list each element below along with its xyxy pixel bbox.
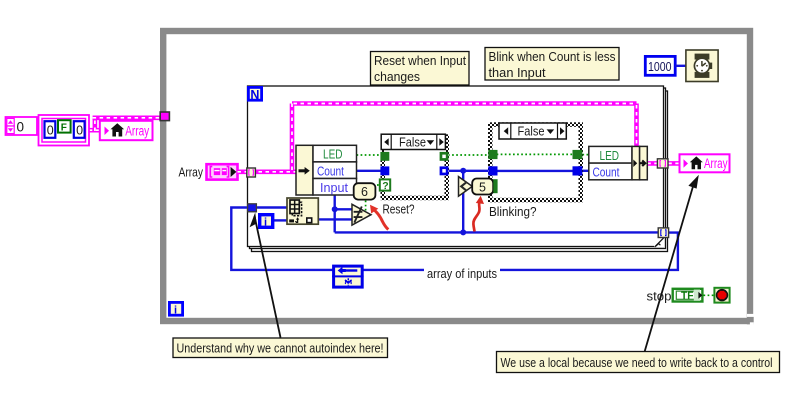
svg-text:5: 5 <box>479 180 486 194</box>
stop TF terminal <box>673 289 703 302</box>
numeric 0 (right) <box>74 121 85 138</box>
svg-text:0: 0 <box>17 120 25 135</box>
svg-text:Array: Array <box>704 156 728 171</box>
svg-text:array of inputs: array of inputs <box>427 267 497 281</box>
wire: LED boolean across cases (green dotted) <box>357 154 590 156</box>
wire: blue feedback loop around bottom <box>231 208 678 270</box>
comment: Blink when Count is less than Input <box>485 48 619 81</box>
svg-text:0: 0 <box>47 124 54 138</box>
callout line to blue tunnel <box>250 212 281 337</box>
case 1 tunnel: Count out (blue, default) <box>440 166 449 175</box>
svg-text:We use a local because we need: We use a local because we need to write … <box>501 355 773 370</box>
for tunnel: array of inputs out (blue []) <box>658 228 668 238</box>
case 2 ? sliver <box>493 181 496 192</box>
comment: Understand why we cannot autoindex here! <box>173 338 388 358</box>
Array control terminal <box>207 164 238 179</box>
wire: bundle output to local variable (magenta dashed) <box>647 161 679 166</box>
svg-text:Reset?: Reset? <box>383 201 415 216</box>
svg-text:False: False <box>518 125 545 139</box>
page curl at for-loop bottom-right <box>654 237 664 247</box>
svg-text:than Input: than Input <box>489 65 546 80</box>
constant 5 <box>472 179 493 195</box>
case 1 selector label <box>381 134 445 149</box>
for loop N (stacked frames) : back frame <box>252 91 668 252</box>
label: array of inputs <box>424 264 500 281</box>
wire: i terminal to index array (blue) <box>274 219 288 221</box>
case 1 tunnel: LED out (green, default) <box>440 152 449 161</box>
for loop front frame <box>248 86 664 247</box>
wire: 1000 to wait (blue) <box>675 65 686 67</box>
constant 1000 <box>645 56 675 75</box>
svg-text:Array: Array <box>179 165 204 180</box>
for tunnel: cluster array out (pink []) <box>657 159 668 168</box>
for loop middle frame <box>250 88 666 249</box>
while loop i terminal <box>169 302 182 316</box>
bundle by name node <box>589 146 648 179</box>
case 2 tunnel: Count out (blue) <box>573 166 583 175</box>
wait ms node (watch icon) <box>686 50 718 82</box>
svg-text:LED: LED <box>323 148 343 162</box>
wire: for tunnel to index array (blue) <box>254 206 288 208</box>
case structure 1 <box>381 134 450 200</box>
svg-text:Blink when Count is less: Blink when Count is less <box>489 49 616 64</box>
svg-text:N: N <box>250 88 259 102</box>
unbundle by name node <box>296 145 357 195</box>
svg-text:Count: Count <box>317 164 344 178</box>
case 1 selector terminal ? <box>380 179 390 191</box>
wire: not-equal output to case selector (green dotted) <box>366 185 380 211</box>
local variable Array (left) <box>100 121 153 140</box>
svg-text:LED: LED <box>600 149 620 163</box>
constant 6 <box>354 183 376 199</box>
case 2 tunnel: LED in (green) <box>488 150 497 159</box>
annotation red arrow (Reset?) <box>370 205 388 230</box>
svg-text:i: i <box>174 304 177 316</box>
case 2 tunnel: Count in (blue) <box>488 166 497 175</box>
svg-text:i: i <box>264 216 267 228</box>
wire: branch down to array-of-inputs (blue) <box>462 171 464 233</box>
for tunnel: array in (pink []) <box>247 168 256 177</box>
case 1 tunnel: LED in (green) <box>380 152 389 161</box>
not equal node <box>352 204 371 225</box>
svg-text:Blinking?: Blinking? <box>489 204 537 219</box>
for tunnel: array of inputs in (solid blue) <box>248 204 257 212</box>
svg-text:F: F <box>61 122 67 133</box>
annotation red arrow (Blinking?) <box>473 196 484 232</box>
wire: Array terminal into for loop (magenta dashed) <box>238 104 637 172</box>
svg-text:0: 0 <box>76 124 83 138</box>
for loop i terminal <box>260 215 273 229</box>
numeric 0 (left) <box>45 121 56 138</box>
svg-text:1000: 1000 <box>648 59 672 74</box>
svg-text:Input: Input <box>320 181 349 195</box>
svg-text:TF: TF <box>681 290 694 302</box>
array index box <box>6 117 38 135</box>
stop button terminal <box>714 288 729 303</box>
wire: count value across cases (blue) <box>357 170 590 172</box>
case 2 interior wires <box>493 153 579 155</box>
svg-text:False: False <box>399 135 426 149</box>
wire: TF to stop button (green dotted) <box>704 294 715 296</box>
feedback node (array of inputs) <box>332 266 364 287</box>
cluster array constant <box>39 115 90 146</box>
case 2 selector label <box>499 123 566 139</box>
index array node <box>287 198 318 224</box>
svg-text:Understand why we cannot autoi: Understand why we cannot autoindex here! <box>177 340 384 355</box>
junction dot on array-of-inputs wire <box>460 229 466 235</box>
wire: input value down from unbundle (blue) <box>334 195 336 233</box>
local variable Array (right) <box>680 154 730 172</box>
wire: index array output to not-equal (blue) <box>319 218 352 220</box>
for loop N terminal <box>248 87 261 102</box>
less-than node <box>459 177 473 197</box>
wire: current input to array-of-inputs tunnel (blue) <box>335 231 659 233</box>
svg-text:Array: Array <box>125 123 149 138</box>
tunnel on while loop left border (magenta) <box>160 112 169 121</box>
junction dot on input wire <box>332 206 338 212</box>
while loop (gray frame) <box>163 31 750 321</box>
svg-text:Reset when Input: Reset when Input <box>374 53 466 68</box>
case 1 tunnel: Count in (blue) <box>380 166 389 175</box>
callout line to local variable <box>645 175 699 352</box>
svg-text:changes: changes <box>374 69 420 84</box>
case structure 2 <box>488 122 583 202</box>
svg-text:6: 6 <box>361 185 368 199</box>
case 2 tunnel: LED out (green) <box>573 150 583 159</box>
svg-text:Count: Count <box>593 166 620 180</box>
comment: Reset when Input changes <box>371 52 470 86</box>
case 2 selector terminal ? (mostly hidden) <box>487 180 497 192</box>
comment: We use a local because we need to write back to a control! <box>497 352 780 373</box>
wire: to not-equal top input (blue) <box>335 208 352 210</box>
boolean F <box>58 120 71 132</box>
wire: array constant to local variable and while tunnel (magenta dashed) <box>89 118 162 131</box>
junction dot on count wire <box>460 168 466 174</box>
svg-text:?: ? <box>382 180 388 192</box>
